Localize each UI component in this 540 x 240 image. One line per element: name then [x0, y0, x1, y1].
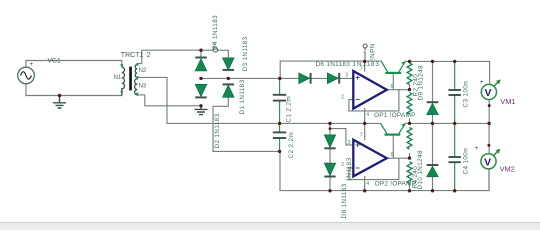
pin labels OP1	[341, 66, 393, 118]
wire OP1 feedback	[349, 90, 399, 111]
primary coil N1	[122, 67, 125, 95]
ground G2	[195, 106, 208, 115]
diode D3	[223, 58, 235, 70]
wire OP2 output	[387, 157, 410, 159]
wire rectified plus row	[201, 77, 353, 79]
source VG1	[18, 61, 35, 84]
resistor R4	[407, 162, 412, 184]
secondary coil N3	[135, 77, 138, 95]
svg-text:D4 1N1183: D4 1N1183	[212, 15, 219, 50]
svg-text:VG1: VG1	[48, 57, 62, 64]
svg-text:VM1: VM1	[500, 97, 515, 106]
svg-text:6: 6	[391, 152, 394, 158]
svg-text:3: 3	[348, 140, 351, 146]
wire diode chain column	[329, 123, 331, 190]
diode D5	[327, 73, 339, 84]
wire VM2 top and bottom	[488, 123, 490, 190]
wire VM1 bottom	[488, 100, 490, 124]
svg-text:4: 4	[366, 181, 369, 187]
bottom gray band	[0, 223, 540, 231]
jumper 2 right	[363, 44, 367, 48]
svg-text:TRCT1: TRCT1	[121, 52, 144, 59]
diode chain D8	[324, 163, 335, 176]
wire rail B emitter to VM1	[405, 61, 489, 84]
svg-text:OP2 !OPAMP: OP2 !OPAMP	[375, 181, 417, 188]
wire jumper2b stub	[364, 53, 366, 61]
op-amp OP1	[353, 71, 387, 109]
wire OP2 plus input tap	[330, 129, 353, 145]
capacitor C1	[273, 95, 286, 101]
diode D6	[299, 73, 311, 84]
wire OP2 power pins	[364, 123, 366, 190]
svg-text:D2 1N1183: D2 1N1183	[214, 113, 221, 148]
svg-text:C3 100n: C3 100n	[463, 81, 470, 108]
svg-text:C2 2.2m: C2 2.2m	[288, 132, 295, 159]
transformer core	[129, 67, 132, 91]
svg-text:D6 1N1183: D6 1N1183	[316, 61, 351, 68]
svg-text:VM2: VM2	[500, 165, 515, 174]
svg-text:D10 1N1248: D10 1N1248	[417, 150, 424, 189]
svg-text:C4 100n: C4 100n	[463, 148, 470, 175]
capacitor lead wires	[280, 61, 455, 190]
wire secondary bottom to ground node	[137, 95, 201, 106]
wire secondary top to bridge top	[137, 50, 228, 64]
svg-text:2: 2	[147, 52, 151, 59]
wire zener D9 column	[432, 61, 434, 123]
svg-text:2: 2	[341, 162, 344, 168]
diode chain D5b	[324, 135, 335, 148]
svg-text:3: 3	[345, 73, 348, 79]
svg-text:D9 1N1248: D9 1N1248	[418, 65, 425, 101]
svg-text:4: 4	[366, 112, 369, 118]
svg-text:1N1183: 1N1183	[346, 157, 353, 181]
wire zener D10 column	[432, 123, 434, 190]
capacitor C2	[273, 132, 286, 138]
voltmeter VM2	[475, 145, 501, 169]
svg-text:D8 1N1183: D8 1N1183	[341, 183, 348, 218]
resistor R1	[407, 63, 412, 85]
svg-text:C1 2.2m: C1 2.2m	[286, 96, 293, 123]
voltmeter VM1	[480, 79, 501, 100]
wire left diode column stub	[200, 50, 202, 57]
wire rail A	[280, 61, 381, 78]
pin labels OP2	[341, 133, 393, 187]
wire Q1 base	[392, 74, 394, 89]
diode D1	[223, 84, 235, 97]
wire center tap to mid rail	[137, 77, 380, 123]
zener D10	[427, 165, 439, 177]
svg-text:!NPN: !NPN	[369, 43, 376, 60]
wire OP1 output	[387, 89, 410, 91]
svg-text:N1: N1	[114, 75, 122, 81]
diode D4	[195, 58, 207, 71]
wire VG1 bottom to transformer primary	[26, 84, 122, 96]
capacitor C3	[449, 90, 461, 95]
svg-text:N3: N3	[139, 84, 147, 90]
wire Q2 base	[392, 136, 394, 158]
terminal pads	[121, 63, 139, 95]
svg-text:V: V	[485, 87, 492, 99]
svg-text:6: 6	[391, 84, 394, 90]
transistor Q1	[381, 61, 405, 74]
resistor R2	[407, 93, 412, 115]
secondary coil N2	[135, 65, 137, 78]
jumper 2 left	[213, 48, 217, 52]
wire OP2 feedback	[349, 158, 399, 179]
svg-text:OP1 !OPAMP: OP1 !OPAMP	[374, 112, 416, 119]
wire VG1 top to transformer primary	[26, 61, 122, 68]
svg-text:+: +	[29, 61, 33, 68]
wire bottom rail	[280, 151, 489, 190]
svg-text:+: +	[475, 145, 479, 152]
svg-text:N2: N2	[139, 68, 147, 74]
svg-text:V: V	[484, 156, 491, 168]
svg-text:7: 7	[360, 133, 363, 139]
resistor R3	[407, 128, 412, 150]
svg-text:D3 1N1183: D3 1N1183	[242, 36, 249, 71]
svg-text:2: 2	[341, 95, 344, 101]
svg-text:2: 2	[363, 49, 366, 55]
zener D9	[427, 102, 439, 115]
wire mid rail right	[405, 122, 489, 124]
op-amp OP2	[353, 140, 387, 177]
diode D2	[195, 84, 207, 97]
transformer TRCT1	[122, 65, 138, 96]
svg-text:7: 7	[360, 66, 363, 72]
wire OP1 power pins	[364, 61, 366, 123]
transistor Q2	[381, 123, 406, 135]
svg-text:D1 1N1183: D1 1N1183	[239, 79, 246, 114]
wire R chain connectors	[409, 85, 411, 191]
ground G1	[53, 96, 66, 109]
capacitor C4	[449, 157, 461, 162]
svg-text:+: +	[480, 79, 484, 86]
wire bridge right bottom to minus node	[213, 98, 280, 152]
